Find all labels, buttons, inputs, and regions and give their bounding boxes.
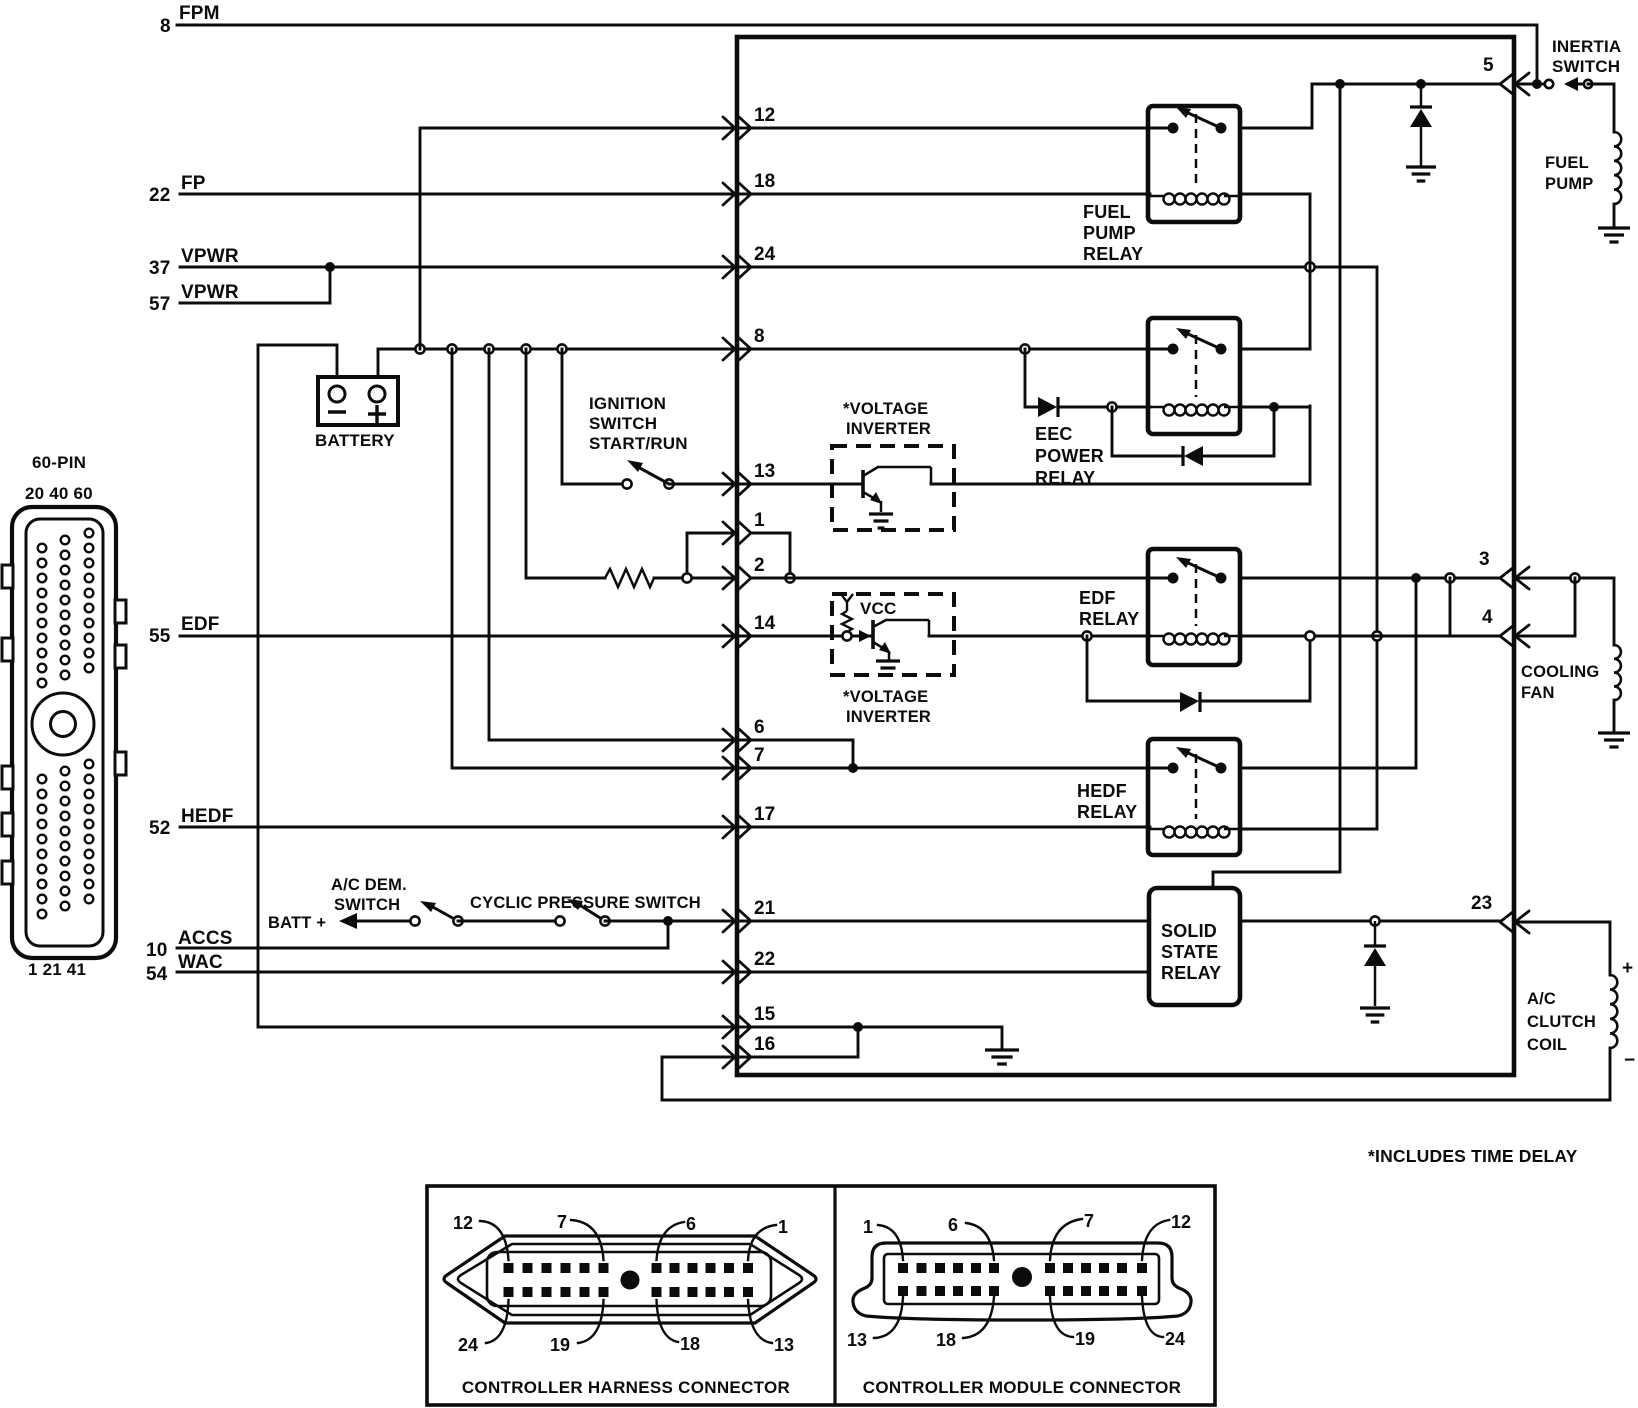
cyclic pressure switch terminal left (555, 916, 564, 925)
svg-text:FPM: FPM (179, 3, 220, 24)
wire inverter 2 output to EDF relay coil (929, 635, 1150, 638)
fuel pump motor coil (1614, 132, 1621, 204)
svg-text:INVERTER: INVERTER (846, 420, 931, 438)
svg-text:23: 23 (1471, 893, 1492, 914)
wire FP: pin 22 through pin 18 to fuel pump relay coil (180, 193, 1150, 196)
module connector pin 24 leader (1142, 1297, 1163, 1337)
wire flyback diode loop left leg (1112, 407, 1183, 456)
resistor (VCC pull-up) and VCC arrow (841, 594, 853, 632)
controller module connector body (853, 1243, 1191, 1320)
wire pin 21 to SSR (737, 920, 1149, 923)
arrow into transistor base (859, 630, 871, 642)
bottom connectors outer box (427, 1186, 1215, 1405)
pin 2 entry chevrons (723, 567, 751, 589)
svg-text:18: 18 (680, 1334, 700, 1354)
svg-text:18: 18 (754, 171, 775, 192)
svg-text:−: − (1624, 1050, 1635, 1071)
junction pin5 rail / clamp diode (1416, 79, 1426, 89)
wire A/C demand switch to cyclic pressure switch (458, 920, 560, 923)
junction pin24 wire / coil return rail (1305, 262, 1314, 271)
wire pin 6 riser (489, 349, 737, 740)
svg-text:19: 19 (1075, 1329, 1095, 1349)
svg-text:19: 19 (550, 1335, 570, 1355)
svg-text:VPWR: VPWR (181, 282, 239, 303)
wire battery negative to pins 15/16 return (258, 345, 737, 1027)
wire ignition switch to pin 13 (669, 483, 737, 486)
A/C demand switch terminal left (410, 916, 419, 925)
pin 8 entry chevrons (723, 338, 751, 360)
svg-text:5: 5 (1483, 55, 1494, 76)
svg-text:CONTROLLER MODULE CONNECTOR: CONTROLLER MODULE CONNECTOR (863, 1378, 1182, 1397)
svg-text:14: 14 (754, 613, 776, 634)
svg-text:CONTROLLER HARNESS CONNECTOR: CONTROLLER HARNESS CONNECTOR (462, 1378, 790, 1397)
svg-text:CLUTCH: CLUTCH (1527, 1013, 1596, 1031)
wire HEDF pin 52 to pin 17 to relay coil (180, 826, 1150, 829)
svg-text:EEC: EEC (1035, 424, 1073, 444)
ground (inverter 2 emitter) (876, 661, 900, 675)
svg-text:12: 12 (1171, 1212, 1191, 1232)
svg-text:12: 12 (754, 105, 775, 126)
wire fuel pump relay contact to pin 5 rail (1240, 84, 1312, 128)
node pin14 / VCC pull-up (842, 631, 851, 640)
svg-text:6: 6 (754, 717, 765, 738)
cyclic pressure switch blade (578, 904, 605, 921)
voltage inverter 1 dashed box (832, 446, 954, 530)
svg-text:2: 2 (754, 555, 765, 576)
svg-text:1: 1 (863, 1217, 873, 1237)
pin 5 entry chevrons (1500, 73, 1529, 95)
controller module connector pins (898, 1263, 1147, 1296)
wire pin 2 to EDF relay contact (751, 577, 1173, 580)
svg-text:FAN: FAN (1521, 684, 1555, 702)
junction pin8 wire / coil feed diode (1020, 344, 1029, 353)
svg-text:HEDF: HEDF (181, 806, 234, 827)
pin 22 entry chevrons (723, 961, 751, 983)
wire FPM: pin 8 to inertia switch node (177, 25, 1537, 84)
wire pin 14 into inverter 2 (737, 635, 873, 638)
svg-text:WAC: WAC (178, 952, 223, 973)
inertia switch terminal left (1545, 80, 1553, 88)
inertia switch blade (1578, 83, 1588, 86)
svg-text:PUMP: PUMP (1083, 223, 1136, 243)
wire pin 12 feed riser and pin12 row to fuel pump relay contact (420, 128, 1173, 349)
wire WAC pin 54 to pin 22 (177, 971, 737, 974)
diode CR5 (A/C clutch clamp) (1364, 921, 1386, 1006)
svg-text:BATT +: BATT + (268, 914, 326, 932)
60-pin connector pin holes (38, 529, 94, 919)
svg-text:13: 13 (774, 1335, 794, 1355)
svg-text:55: 55 (149, 626, 171, 647)
junction ACCS / pin 21 wire (663, 916, 673, 926)
wire EDF flyback loop (1087, 636, 1310, 701)
svg-text:STATE: STATE (1161, 942, 1218, 962)
svg-text:RELAY: RELAY (1035, 468, 1095, 488)
junction B+ rail / pin2 riser (521, 344, 530, 353)
wire pin 7 to HEDF relay contact (737, 767, 1173, 770)
svg-text:22: 22 (149, 185, 171, 206)
svg-text:*VOLTAGE: *VOLTAGE (843, 688, 928, 706)
diode CR4 (EDF relay flyback) (1180, 692, 1200, 712)
diode CR3 (EEC relay flyback) (1183, 446, 1203, 466)
svg-text:POWER: POWER (1035, 446, 1104, 466)
svg-text:17: 17 (754, 804, 775, 825)
svg-text:PUMP: PUMP (1545, 175, 1593, 193)
svg-text:8: 8 (160, 16, 171, 37)
svg-text:24: 24 (754, 244, 776, 265)
EEC module boundary box (left edge = 60-pin bus) (737, 37, 1514, 1075)
wire pin 1 / pin 2 loop (right of bus) (751, 533, 790, 578)
wire B+ riser to solid state relay (1213, 84, 1340, 888)
pin 23 entry chevrons (1500, 911, 1529, 933)
wire fuel pump relay coil return (1240, 193, 1310, 196)
wire EDF pin 55 to pin 14 (180, 635, 737, 638)
harness connector pin 12 leader (480, 1221, 509, 1260)
junction B+ rail / pin12 riser (415, 344, 424, 353)
svg-text:HEDF: HEDF (1077, 781, 1127, 801)
wire SSR output to pin 23 (1240, 920, 1500, 923)
wire EEC coil right to inverter output (1309, 406, 1312, 484)
wire pin 8 to EEC power relay contact (737, 348, 1172, 351)
junction EDF coil wire / loop diode left (1082, 631, 1091, 640)
junction B+ rail / pin7 riser (447, 344, 456, 353)
60-pin connector body (2, 507, 126, 958)
svg-text:START/RUN: START/RUN (589, 434, 688, 453)
svg-text:16: 16 (754, 1034, 775, 1055)
svg-text:24: 24 (1165, 1329, 1185, 1349)
wire cooling fan to ground (1613, 700, 1616, 731)
wire pin 1 / pin 2 loop (left of bus) (687, 533, 735, 578)
cyclic pressure switch terminal right (600, 916, 609, 925)
svg-text:18: 18 (936, 1330, 956, 1350)
ground (inverter 1 emitter) (869, 514, 893, 528)
svg-text:EDF: EDF (181, 614, 220, 635)
svg-text:A/C: A/C (1527, 990, 1556, 1008)
wire pin 5 to inertia switch (1516, 83, 1549, 86)
junction pin1 loop / pin2 wire left (682, 573, 691, 582)
ignition switch terminal right (664, 479, 673, 488)
junction pin1 loop / pin2 wire right (785, 573, 794, 582)
harness connector pin 19 leader (578, 1300, 604, 1343)
solid state relay U1 box (1149, 888, 1240, 1005)
wire VPWR pin 24 to HEDF relay coil (737, 267, 1377, 829)
battery (318, 377, 398, 425)
junction B+ rail / pin6 riser (484, 344, 493, 353)
svg-text:VCC: VCC (860, 599, 897, 618)
diode CR2 (EEC relay coil feed) (1038, 397, 1058, 417)
wire pin 16 row (737, 1056, 858, 1059)
svg-text:15: 15 (754, 1004, 776, 1025)
svg-text:10: 10 (146, 940, 168, 961)
svg-text:COIL: COIL (1527, 1036, 1567, 1054)
pin 3 entry chevrons (1500, 567, 1529, 589)
svg-text:INERTIA: INERTIA (1552, 37, 1621, 56)
module connector pin 12 leader (1142, 1220, 1169, 1260)
wire pin 15 row to ground (737, 1027, 1002, 1048)
pin 15 entry chevrons (723, 1016, 751, 1038)
svg-text:INVERTER: INVERTER (846, 708, 931, 726)
ignition switch terminal left (622, 479, 631, 488)
junction coil feed / flyback diode left (1107, 402, 1116, 411)
svg-text:SWITCH: SWITCH (334, 896, 400, 914)
controller module connector key post (1012, 1267, 1032, 1287)
wire flyback diode loop right leg (1204, 407, 1274, 456)
junction pin3 wire / HEDF contact riser (1411, 573, 1421, 583)
svg-text:A/C DEM.: A/C DEM. (331, 876, 407, 894)
wire EEC relay contact output (1240, 348, 1310, 351)
svg-text:7: 7 (1084, 1211, 1094, 1231)
pin 12 entry chevrons (723, 117, 751, 139)
svg-text:RELAY: RELAY (1083, 244, 1143, 264)
wire pin3 to cooling fan (1516, 578, 1614, 645)
svg-text:13: 13 (754, 461, 775, 482)
pin 6 entry chevrons (723, 729, 751, 751)
svg-text:13: 13 (847, 1330, 867, 1350)
svg-text:+: + (1622, 958, 1633, 979)
svg-text:54: 54 (146, 964, 168, 985)
harness connector pin 6 leader (657, 1222, 685, 1260)
wire pin4 loop right (1516, 578, 1575, 636)
junction B+ rail / ignition riser (557, 344, 566, 353)
junction VPWR riser / EDF coil wire (1372, 631, 1381, 640)
relay K2 EEC POWER RELAY (1148, 318, 1240, 434)
wire VPWR pin 57 joining pin 37 (180, 267, 330, 303)
module connector pin 18 leader (963, 1297, 994, 1338)
wire battery positive rail to pin 8 (378, 349, 737, 377)
junction VPWR 37/57 (325, 262, 335, 272)
harness connector pin 18 leader (657, 1300, 679, 1342)
junction SSR output / clamp diode (1370, 916, 1379, 925)
svg-text:37: 37 (149, 258, 171, 279)
relay K1 FUEL PUMP RELAY (1148, 106, 1240, 222)
svg-text:SWITCH: SWITCH (589, 414, 657, 433)
wire pin3/pin4 loop left (1450, 578, 1500, 636)
svg-text:BATTERY: BATTERY (315, 431, 395, 450)
svg-text:1: 1 (778, 1217, 788, 1237)
svg-text:1 21 41: 1 21 41 (28, 960, 86, 979)
controller harness connector body (444, 1236, 816, 1323)
svg-text:6: 6 (686, 1214, 696, 1234)
svg-text:3: 3 (1479, 549, 1490, 570)
pin 1 entry chevrons (723, 522, 751, 544)
pin 13 entry chevrons (723, 473, 751, 495)
svg-text:22: 22 (754, 949, 775, 970)
junction pin3 wire / pin4 loop (1445, 573, 1454, 582)
wire pin 7 riser (452, 349, 737, 768)
svg-text:VPWR: VPWR (181, 246, 239, 267)
wire series diode to EEC relay coil (1058, 406, 1150, 409)
pin 16 entry chevrons (723, 1046, 751, 1068)
ground (cooling fan) (1598, 733, 1630, 747)
svg-text:24: 24 (458, 1335, 478, 1355)
junction pin3 right / pin4 loop right (1570, 573, 1579, 582)
wire inertia switch to fuel pump (1588, 84, 1614, 132)
svg-text:1: 1 (754, 510, 765, 531)
svg-text:SOLID: SOLID (1161, 921, 1217, 941)
relay K4 HEDF RELAY (1148, 739, 1240, 855)
svg-text:RELAY: RELAY (1161, 963, 1221, 983)
inertia switch terminal right (1584, 80, 1592, 88)
svg-text:FUEL: FUEL (1545, 154, 1589, 172)
module connector pin 7 leader (1050, 1219, 1082, 1260)
voltage inverter 2 dashed box (832, 594, 954, 675)
module connector pin 13 leader (874, 1297, 903, 1338)
wire pin 23 to A/C clutch coil (1516, 922, 1610, 975)
junction FPM / inertia switch feed (1532, 79, 1542, 89)
bottom connectors divider (833, 1186, 836, 1405)
module connector pin 1 leader (878, 1225, 903, 1260)
junction EDF coil wire / loop diode right (1305, 631, 1314, 640)
pin 24 entry chevrons (723, 256, 751, 278)
module connector pin 19 leader (1050, 1297, 1073, 1337)
wire ignition switch feed riser (562, 349, 627, 484)
harness connector pin 7 leader (571, 1220, 604, 1260)
cooling fan motor coil (1614, 645, 1621, 700)
diode CR1 (pin 5 rail clamp) (1410, 84, 1432, 166)
harness connector pin 1 leader (748, 1225, 776, 1260)
pin 17 entry chevrons (723, 816, 751, 838)
svg-text:ACCS: ACCS (178, 928, 233, 949)
junction pin15 / pin16 tie (853, 1022, 863, 1032)
pin 14 entry chevrons (723, 625, 751, 647)
wire coil return rail (FP coil to EEC contact) (1309, 194, 1312, 349)
wire ACCS pin 10 to pin 21 node (177, 921, 668, 948)
wire inverter 1 output to relay coil return rail (931, 483, 1310, 486)
svg-text:52: 52 (149, 818, 171, 839)
svg-text:7: 7 (754, 745, 765, 766)
svg-text:20 40 60: 20 40 60 (25, 484, 93, 503)
junction pin5 rail / SSR feed riser (1335, 79, 1345, 89)
svg-text:8: 8 (754, 326, 765, 347)
svg-text:*INCLUDES TIME DELAY: *INCLUDES TIME DELAY (1368, 1146, 1578, 1166)
svg-text:FUEL: FUEL (1083, 202, 1131, 222)
ground (pins 15/16) (985, 1050, 1019, 1064)
ignition switch blade (638, 467, 669, 484)
ground (pin 5 clamp diode) (1406, 167, 1436, 181)
wire resistor to pin 2 (654, 577, 735, 580)
wire VPWR pin 37 to pin 24 (180, 266, 737, 269)
svg-text:EDF: EDF (1079, 588, 1116, 608)
transistor Q1 (voltage inverter 1) (863, 467, 931, 512)
60-pin connector center post (32, 693, 94, 755)
svg-text:COOLING: COOLING (1521, 663, 1599, 681)
pin 18 entry chevrons (723, 183, 751, 205)
harness connector pin 24 leader (486, 1300, 509, 1343)
wire A/C clutch return to pin 16 (662, 1048, 1610, 1100)
pin 4 entry chevrons (1500, 625, 1529, 647)
junction pin6 / pin7 (848, 763, 858, 773)
wire pin8 junction down to series diode (1025, 349, 1038, 407)
wire fuel pump to ground (1613, 204, 1616, 226)
svg-text:21: 21 (754, 898, 776, 919)
A/C demand switch terminal right (453, 916, 462, 925)
svg-text:IGNITION: IGNITION (589, 394, 666, 413)
ground (fuel pump) (1598, 228, 1630, 242)
svg-text:6: 6 (948, 1215, 958, 1235)
wire batt to A/C demand switch (352, 920, 415, 923)
pin 21 entry chevrons (723, 910, 751, 932)
svg-text:*VOLTAGE: *VOLTAGE (843, 400, 928, 418)
svg-text:60-PIN: 60-PIN (32, 453, 86, 472)
wire EDF coil to pin 4 row (1240, 635, 1450, 638)
arrow to battery (339, 913, 357, 929)
wire EDF relay contact to pin 3 (1240, 577, 1500, 580)
svg-text:7: 7 (557, 1212, 567, 1232)
A/C clutch coil (1610, 975, 1617, 1048)
wire pin 5 rail (inside module) (1312, 83, 1500, 86)
A/C demand switch blade (431, 906, 458, 921)
svg-text:RELAY: RELAY (1079, 609, 1139, 629)
wire HEDF contact to pin 3 node (1240, 578, 1416, 768)
wire EEC relay coil return (1240, 406, 1310, 409)
pin 7 entry chevrons (723, 757, 751, 779)
relay K3 EDF RELAY (1148, 549, 1240, 665)
controller harness connector pins (504, 1263, 754, 1297)
svg-text:SWITCH: SWITCH (1552, 57, 1620, 76)
wire pin 22 to SSR (737, 971, 1149, 974)
harness connector pin 13 leader (748, 1300, 772, 1343)
wire pin 6 join to pin 7 row (737, 740, 853, 768)
wire pin 2 riser (526, 349, 605, 578)
controller harness connector key post (621, 1271, 640, 1290)
wire pin15/pin16 tie (857, 1027, 860, 1057)
module connector pin 6 leader (966, 1223, 994, 1260)
svg-text:12: 12 (453, 1213, 473, 1233)
svg-text:RELAY: RELAY (1077, 802, 1137, 822)
svg-text:4: 4 (1482, 607, 1493, 628)
transistor Q2 (voltage inverter 2) (873, 620, 929, 660)
svg-text:57: 57 (149, 294, 171, 315)
wire pin 13 to inverter transistor base (737, 483, 863, 486)
resistor (pin 2 series) (605, 569, 654, 587)
ground (SSR clamp diode) (1360, 1008, 1390, 1022)
svg-text:FP: FP (181, 173, 206, 194)
wire cyclic pressure switch to pin 21 (605, 920, 737, 923)
junction coil return / flyback diode right (1269, 402, 1279, 412)
